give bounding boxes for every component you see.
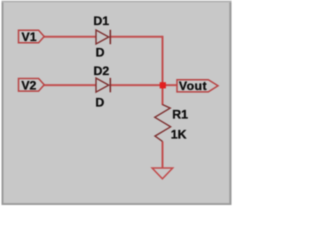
svg-text:1K: 1K [171,127,187,141]
svg-text:V2: V2 [21,79,36,93]
flag V2 [19,79,45,93]
svg-text:Vout: Vout [179,79,207,93]
ground [152,168,173,179]
svg-text:D1: D1 [93,14,109,28]
wire V1 flag to D1 anode [44,36,96,38]
flag Vout [177,79,218,93]
wire V2 flag to D2 anode [44,84,96,86]
wire corner down to junction [162,36,164,86]
svg-text:V1: V1 [22,30,37,44]
junction node [160,82,166,88]
svg-text:D: D [96,46,105,60]
svg-text:D2: D2 [94,64,110,78]
schematic canvas background [0,0,233,210]
svg-text:D: D [95,95,104,109]
wire junction down to R1 [162,85,164,105]
resistor R1 [155,105,171,142]
diode D2 [96,78,110,92]
wire D2 cathode to Vout flag [110,84,177,86]
svg-text:R1: R1 [172,108,188,122]
wire R1 bottom to ground [162,141,164,168]
flag V1 [19,30,45,44]
diode D1 [96,30,110,44]
wire D1 cathode to corner [110,36,163,38]
